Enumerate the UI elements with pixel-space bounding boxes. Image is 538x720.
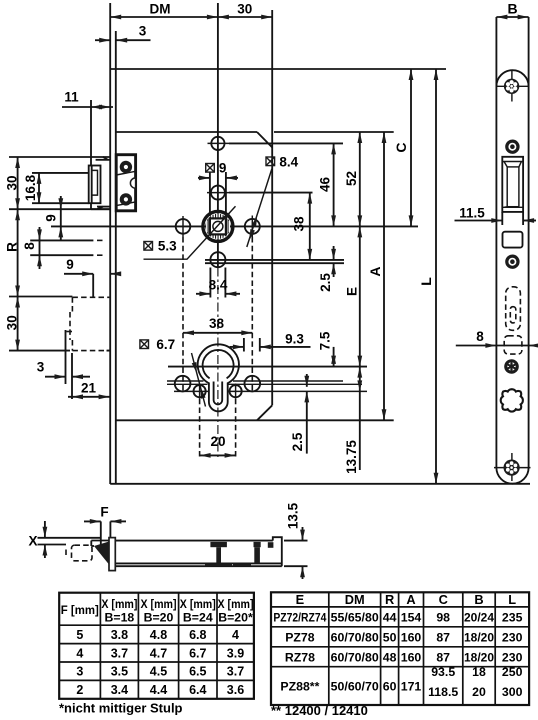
left table column lines: [100, 593, 217, 699]
svg-text:171: 171: [401, 679, 422, 693]
bottom screw torx head: [504, 460, 520, 476]
svg-text:PZ78: PZ78: [285, 631, 315, 645]
svg-text:230: 230: [502, 631, 523, 645]
svg-text:4.8: 4.8: [150, 628, 167, 642]
faceplate strip rounded bottom: [496, 468, 528, 484]
side view case right end step: [273, 537, 282, 566]
side view latch bevel dark triangle: [94, 542, 109, 565]
svg-text:6.7: 6.7: [189, 646, 206, 660]
svg-text:3.7: 3.7: [227, 665, 244, 679]
svg-text:PZ72/RZ74: PZ72/RZ74: [273, 611, 326, 625]
svg-text:3.4: 3.4: [111, 683, 128, 697]
svg-text:2.5: 2.5: [318, 273, 333, 292]
svg-text:250: 250: [502, 665, 523, 679]
extension line from top hole for 46: [229, 142, 343, 144]
dimension R: [15, 209, 20, 220]
hole right of follower: [245, 219, 260, 234]
svg-text:6.4: 6.4: [189, 683, 206, 697]
svg-text:2.5: 2.5: [290, 432, 305, 451]
deadbolt thrown position dashed outline top: [72, 296, 109, 298]
svg-text:4.5: 4.5: [150, 665, 167, 679]
svg-text:50/60/70: 50/60/70: [331, 679, 379, 693]
svg-text:8: 8: [22, 242, 37, 250]
dimension C: [410, 69, 412, 226]
side view F dimension: [84, 520, 101, 522]
second screw: [507, 141, 518, 152]
right table data: [273, 611, 522, 700]
third screw: [507, 256, 518, 267]
svg-text:6.8: 6.8: [189, 628, 206, 642]
deadbolt dashed left edge lower: [71, 340, 73, 351]
latch face inner edge line: [91, 166, 93, 204]
svg-text:E: E: [296, 592, 305, 607]
right table header: [296, 592, 517, 607]
svg-text:8: 8: [476, 329, 484, 344]
dashed cylinder opening upper: [506, 287, 521, 331]
latch bolt bevel second line: [96, 159, 111, 161]
deadbolt extra-throw line: [65, 330, 67, 384]
svg-text:** 12400 / 12410: ** 12400 / 12410: [271, 703, 368, 718]
svg-text:L: L: [508, 592, 516, 607]
hidden feature line at 240.4: [30, 239, 93, 241]
bottom screw crosshair: [494, 467, 531, 469]
lock case bottom right chamfer: [257, 405, 272, 420]
svg-text:38: 38: [292, 216, 307, 232]
dimension square 9: [198, 177, 210, 179]
svg-text:30: 30: [237, 2, 252, 17]
side view corner piece: [268, 542, 274, 548]
svg-text:4.4: 4.4: [150, 683, 167, 697]
dimension DM: [110, 16, 218, 18]
svg-text:B=20*: B=20*: [218, 611, 253, 625]
svg-text:118.5: 118.5: [428, 685, 458, 699]
second slot line: [205, 262, 344, 264]
side view stulp plate: [109, 538, 115, 571]
follower bore circle: [213, 221, 223, 231]
label square 9: [206, 164, 215, 173]
crosshair tick: [207, 192, 229, 194]
feature line y391.4 through small holes: [174, 390, 209, 392]
svg-text:PZ88**: PZ88**: [280, 679, 319, 693]
dimension 21: [68, 396, 110, 398]
side view X extension lines: [38, 537, 101, 539]
svg-text:X [mm]: X [mm]: [141, 597, 177, 611]
svg-text:X: X: [28, 534, 37, 549]
svg-text:16.8: 16.8: [23, 174, 38, 201]
svg-text:3.9: 3.9: [227, 646, 244, 660]
dimension 9 upper: [60, 196, 62, 240]
svg-text:X [mm]: X [mm]: [218, 597, 254, 611]
faceplate bottom edge / extension line for L: [110, 483, 530, 485]
svg-text:18/20: 18/20: [464, 631, 494, 645]
cylinder hole inner arc: [203, 350, 234, 378]
dimension 30 (latch height): [15, 157, 20, 168]
svg-text:235: 235: [502, 611, 523, 625]
dashed cylinder opening lower: [504, 336, 522, 354]
latch in opening bottom bevel: [502, 206, 523, 208]
latch block rivet lower: [120, 193, 132, 205]
svg-text:20: 20: [472, 685, 486, 699]
deadbolt dashed left edge step: [69, 312, 71, 340]
crosshair tick top hole: [208, 142, 230, 144]
label square 8.4 with leader: [266, 157, 275, 166]
follower square hole: [210, 218, 226, 234]
svg-text:3.5: 3.5: [111, 665, 128, 679]
svg-text:3.6: 3.6: [227, 683, 244, 697]
svg-text:B=18: B=18: [105, 611, 135, 625]
svg-text:60: 60: [383, 679, 397, 693]
feature line y384.3: [167, 383, 208, 385]
latch block upper slant line: [116, 171, 135, 175]
latch in opening inner edges: [506, 167, 508, 207]
svg-text:11.5: 11.5: [459, 206, 485, 221]
label square 5.3 with leader: [144, 242, 153, 251]
lock case top edge extension for A: [274, 131, 394, 133]
follower axis line: [51, 225, 418, 227]
latch block lower slant line: [116, 202, 135, 206]
latch bolt front view top edge: [91, 156, 110, 158]
dimension 11.5: [501, 212, 503, 225]
svg-text:4: 4: [232, 628, 239, 642]
dimension 13.5: [284, 540, 308, 542]
latch bolt bottom edge: [91, 208, 110, 210]
dimension 38 vertical: [309, 193, 311, 260]
svg-text:230: 230: [502, 651, 523, 665]
svg-text:48: 48: [383, 651, 397, 665]
latch guide block behind faceplate: [116, 155, 135, 211]
left table outer border: [59, 593, 254, 699]
side view post 2: [254, 542, 261, 547]
small hole vertical ticks: [199, 384, 201, 399]
svg-text:B=20: B=20: [144, 611, 174, 625]
dashed inner slot: [510, 307, 516, 323]
dimension B: [496, 16, 528, 18]
hole above follower: [211, 186, 225, 200]
hole below follower: [210, 252, 225, 267]
dimension 52: [359, 132, 361, 226]
feature line y381: [167, 380, 204, 382]
svg-text:8.4: 8.4: [279, 154, 298, 169]
svg-text:*nicht mittiger Stulp: *nicht mittiger Stulp: [59, 701, 183, 716]
deadbolt top extension line: [9, 296, 72, 298]
svg-text:3.7: 3.7: [111, 646, 128, 660]
svg-text:F: F: [100, 505, 108, 520]
slot line through lower hole / extension for 38 bottom: [205, 259, 344, 261]
vertical center line through follower: [217, 3, 219, 268]
deadbolt bottom extension line: [9, 350, 70, 352]
svg-text:87: 87: [436, 631, 450, 645]
svg-text:30: 30: [5, 175, 20, 190]
latch face bottom extension: [32, 202, 89, 204]
latch bolt left lower edge: [90, 203, 92, 209]
svg-text:8.4: 8.4: [209, 277, 228, 292]
right table row lines: [271, 607, 529, 667]
deadbolt dashed bottom edge: [72, 350, 109, 352]
svg-text:9.3: 9.3: [285, 331, 304, 346]
latch bolt bottom bevel line: [97, 206, 110, 208]
svg-text:3.8: 3.8: [111, 628, 128, 642]
side view T post: [210, 542, 227, 547]
leader line from 8.4 to hole: [247, 169, 272, 247]
lock case bottom edge and extension for A: [116, 419, 394, 421]
svg-text:R: R: [5, 242, 20, 252]
left table data: [76, 628, 244, 697]
svg-text:X [mm]: X [mm]: [101, 597, 137, 611]
svg-text:44: 44: [383, 611, 397, 625]
svg-text:6.7: 6.7: [156, 337, 175, 352]
side view deadbolt dashed: [72, 545, 93, 561]
latch block spring notch semicircle: [130, 178, 135, 188]
svg-text:A: A: [367, 266, 383, 276]
right table outer border: [271, 592, 529, 705]
follower knurled ring: [203, 211, 233, 241]
svg-text:B=24: B=24: [183, 611, 213, 625]
svg-text:30: 30: [5, 315, 20, 330]
svg-text:B: B: [474, 592, 483, 607]
fixing hole right: [245, 376, 261, 392]
svg-text:C: C: [439, 592, 448, 607]
faceplate top edge / extension line for C and L: [110, 68, 446, 70]
dimension 8.4 below follower: [209, 268, 211, 298]
svg-text:160: 160: [401, 631, 422, 645]
dimension 9 lower (deadbolt to faceplate): [64, 273, 93, 275]
hole at case top: [211, 137, 224, 150]
svg-text:38: 38: [209, 316, 225, 331]
left dimension chain line: [17, 157, 19, 351]
fourth screw: [504, 359, 519, 374]
F extension lines: [100, 521, 102, 545]
dimension E: [359, 226, 361, 366]
fixing hole left: [175, 376, 191, 392]
svg-text:F [mm]: F [mm]: [61, 603, 99, 617]
latch bolt left upper edge: [90, 157, 92, 166]
cylinder hole outer profile: [198, 344, 239, 411]
side view case inner bottom line: [115, 562, 281, 564]
dimension 20 extensions dashed: [199, 399, 201, 459]
svg-text:55/65/80: 55/65/80: [331, 611, 379, 625]
dashed center line left fixing hole: [182, 237, 184, 392]
latch bottom extension line: [9, 208, 110, 210]
svg-text:4: 4: [76, 646, 83, 660]
latch opening outer rect: [502, 157, 523, 212]
side view: X dimension: [44, 521, 46, 538]
svg-text:R: R: [385, 592, 394, 607]
svg-text:4.7: 4.7: [150, 646, 167, 660]
dimension 20: [200, 454, 236, 456]
svg-text:5: 5: [76, 628, 83, 642]
follower knurl hatching: [205, 214, 230, 239]
svg-text:7.5: 7.5: [318, 331, 333, 350]
dimension A: [383, 132, 385, 420]
svg-text:87: 87: [436, 651, 450, 665]
left table row lines: [59, 625, 254, 680]
svg-text:6.5: 6.5: [189, 665, 206, 679]
dashed center line right fixing hole: [251, 237, 253, 392]
dimension 30 (deadbolt): [15, 297, 20, 308]
svg-text:3: 3: [76, 665, 83, 679]
svg-text:C: C: [393, 142, 409, 152]
svg-text:9: 9: [66, 257, 74, 272]
svg-text:9: 9: [219, 160, 227, 175]
svg-text:13.75: 13.75: [344, 440, 359, 474]
torx flower outline: [501, 389, 523, 411]
faceplate front view left edge line: [109, 3, 111, 484]
svg-text:X [mm]: X [mm]: [180, 597, 216, 611]
svg-text:154: 154: [401, 611, 422, 625]
cylinder axis extension line: [168, 366, 367, 368]
lock case top edge: [116, 131, 257, 133]
dimension 9.3 leader: [230, 346, 244, 348]
square spindle hole in strip: [503, 232, 523, 248]
top screw crosshair: [496, 85, 528, 87]
svg-text:E: E: [345, 287, 360, 296]
dimension 3 (deadbolt): [45, 376, 66, 378]
svg-text:60/70/80: 60/70/80: [331, 631, 379, 645]
latch top extension line: [9, 156, 91, 158]
svg-text:9: 9: [44, 214, 59, 222]
faceplate strip left edge: [495, 17, 497, 468]
side view lock case bar top: [115, 540, 272, 542]
latch face top extension: [32, 172, 89, 174]
lock case right edge / extension for 30: [271, 10, 273, 405]
svg-text:18/20: 18/20: [464, 651, 494, 665]
svg-text:B: B: [507, 1, 517, 17]
svg-text:DM: DM: [345, 592, 365, 607]
svg-text:3: 3: [139, 24, 147, 39]
latch in opening top bevel: [502, 161, 523, 163]
label square 6.7 with leader: [140, 340, 149, 349]
svg-text:93.5: 93.5: [431, 665, 455, 679]
dimension 8: [39, 227, 41, 269]
extension line for 11 (latch face): [90, 100, 92, 157]
dimension 2.5 middle: [333, 246, 335, 260]
svg-text:50: 50: [383, 631, 397, 645]
svg-text:A: A: [406, 592, 415, 607]
small hole right 6.7: [230, 385, 242, 397]
hidden feature line at 255.2: [30, 254, 93, 256]
side view case bottom: [109, 565, 282, 567]
svg-text:3: 3: [37, 360, 45, 375]
latch face plate outline: [89, 166, 101, 204]
svg-text:2: 2: [76, 683, 83, 697]
right table column lines: [329, 592, 495, 705]
extension line for 21: [71, 353, 73, 399]
svg-text:21: 21: [81, 381, 97, 396]
dimension 11: [62, 106, 113, 108]
dimension L: [435, 69, 437, 484]
faceplate strip right edge: [528, 17, 530, 468]
latch block rivet upper: [120, 161, 132, 173]
extension line from hole for 38: [229, 192, 313, 194]
dimension 30 top: [218, 16, 272, 18]
svg-text:DM: DM: [150, 2, 171, 17]
leader line from 6.7 to small hole: [192, 353, 206, 407]
dimension 8 strip: [456, 345, 537, 347]
svg-text:98: 98: [436, 611, 450, 625]
top screw torx head: [504, 79, 519, 94]
deadbolt front face line: [92, 274, 94, 298]
dimension 2.5 bottom: [306, 374, 308, 387]
dimension 3 top: [95, 39, 110, 41]
svg-text:L: L: [418, 277, 434, 286]
latch face inner step: [92, 170, 98, 195]
svg-text:18: 18: [472, 665, 486, 679]
svg-text:20: 20: [210, 434, 225, 449]
left table header texts: [61, 597, 254, 625]
dimension 46: [333, 143, 335, 226]
svg-text:5.3: 5.3: [158, 239, 177, 254]
small hole left 6.7: [194, 385, 206, 397]
svg-text:RZ78: RZ78: [285, 651, 315, 665]
dimension 38 horizontal (fixing holes): [183, 332, 252, 334]
svg-text:13.5: 13.5: [286, 502, 301, 529]
leader line from 5.3 to follower: [144, 206, 236, 259]
svg-text:46: 46: [318, 177, 333, 193]
lock case top right chamfer: [257, 132, 272, 147]
deadbolt dashed left edge upper: [71, 297, 73, 312]
dimension 7.5: [333, 347, 335, 367]
svg-text:52: 52: [344, 171, 359, 186]
cylinder inner stem: [214, 382, 223, 405]
dimension 13.75: [359, 367, 361, 470]
faceplate strip rounded top: [496, 70, 528, 86]
faceplate front view right edge line: [115, 31, 117, 484]
svg-text:300: 300: [502, 685, 523, 699]
svg-text:20/24: 20/24: [464, 611, 494, 625]
svg-text:11: 11: [64, 90, 79, 105]
dimension 16.8: [38, 173, 40, 203]
svg-text:60/70/80: 60/70/80: [331, 651, 379, 665]
svg-text:160: 160: [401, 651, 422, 665]
hole left of follower: [176, 219, 191, 234]
side view latch tip: [91, 540, 109, 542]
